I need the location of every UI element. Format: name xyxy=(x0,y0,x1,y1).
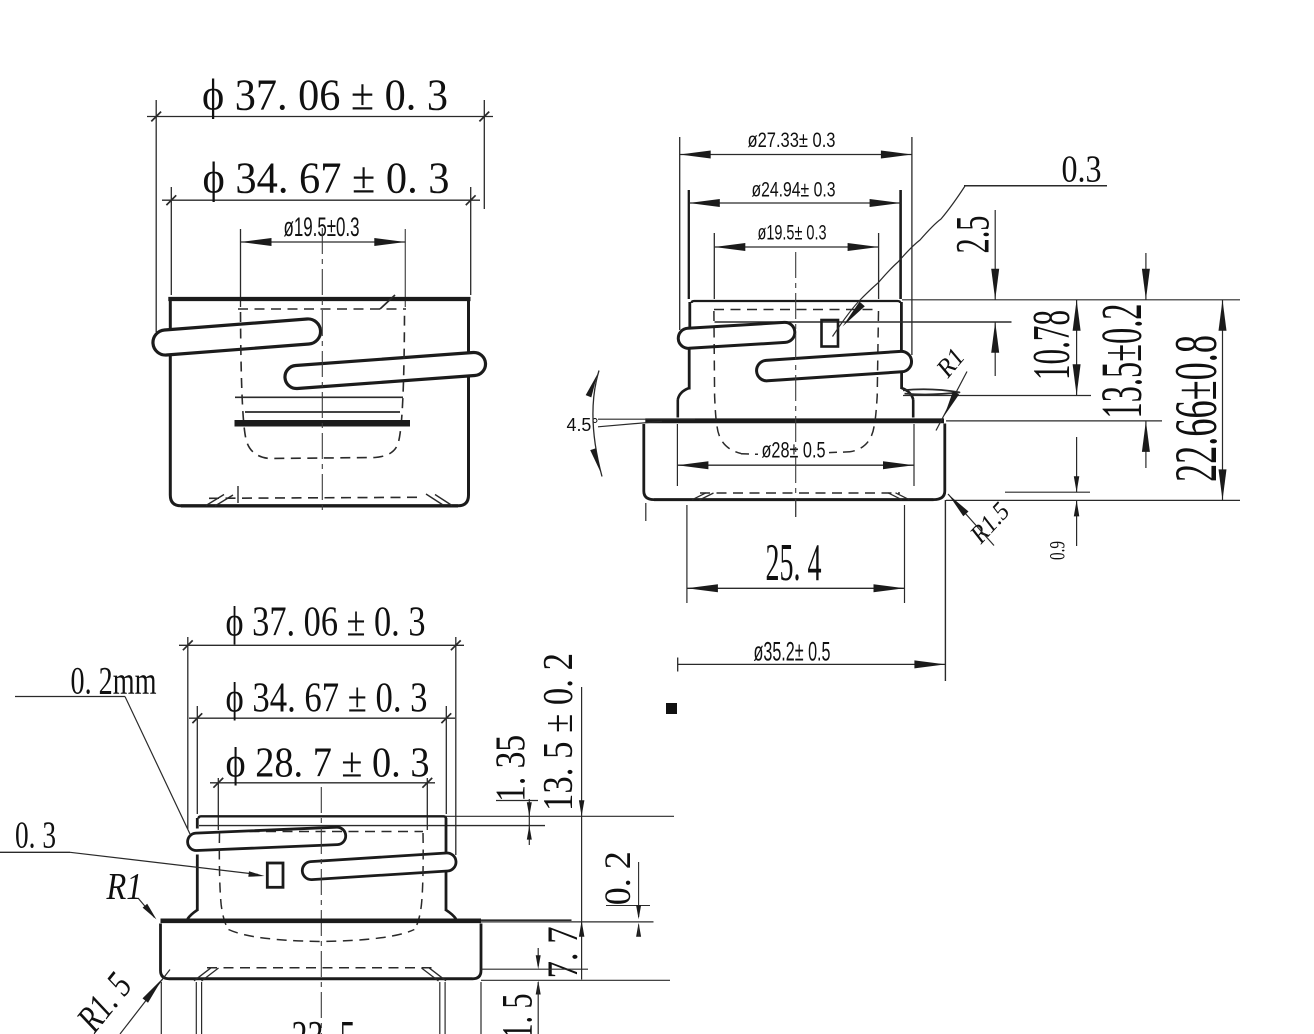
svg-text:ø27.33± 0.3: ø27.33± 0.3 xyxy=(748,128,836,152)
svg-text:ϕ 28. 7 ± 0. 3: ϕ 28. 7 ± 0. 3 xyxy=(226,741,430,787)
svg-text:22.66±0.8: 22.66±0.8 xyxy=(1163,335,1229,482)
svg-text:13. 5 ± 0. 2: 13. 5 ± 0. 2 xyxy=(536,653,582,811)
svg-text:23. 5: 23. 5 xyxy=(292,1012,356,1034)
svg-text:ϕ 34. 67 ± 0. 3: ϕ 34. 67 ± 0. 3 xyxy=(226,676,428,722)
svg-text:ø19.5± 0.3: ø19.5± 0.3 xyxy=(758,221,827,245)
svg-text:R1: R1 xyxy=(106,866,143,908)
svg-text:ϕ 34. 67 ± 0. 3: ϕ 34. 67 ± 0. 3 xyxy=(203,154,450,203)
svg-text:10.78: 10.78 xyxy=(1023,310,1081,380)
svg-text:ø28± 0.5: ø28± 0.5 xyxy=(762,438,826,463)
svg-text:ø24.94± 0.3: ø24.94± 0.3 xyxy=(752,178,836,202)
svg-text:ø35.2± 0.5: ø35.2± 0.5 xyxy=(754,637,831,667)
svg-text:13.5±0.2: 13.5±0.2 xyxy=(1089,304,1154,419)
svg-text:0.3: 0.3 xyxy=(1062,149,1102,191)
svg-text:25. 4: 25. 4 xyxy=(766,534,822,592)
svg-text:1. 35: 1. 35 xyxy=(489,735,535,802)
svg-text:ϕ 37. 06 ± 0. 3: ϕ 37. 06 ± 0. 3 xyxy=(202,71,448,120)
svg-text:0.9: 0.9 xyxy=(1045,541,1070,560)
svg-text:0. 2: 0. 2 xyxy=(598,851,639,905)
svg-text:ø19.5±0.3: ø19.5±0.3 xyxy=(284,212,360,242)
svg-text:2.5: 2.5 xyxy=(947,216,1000,254)
svg-text:ϕ 37. 06 ± 0. 3: ϕ 37. 06 ± 0. 3 xyxy=(226,600,426,646)
svg-text:7. 7: 7. 7 xyxy=(540,926,587,978)
svg-text:0. 3: 0. 3 xyxy=(15,815,56,857)
svg-text:1. 5: 1. 5 xyxy=(495,994,542,1034)
